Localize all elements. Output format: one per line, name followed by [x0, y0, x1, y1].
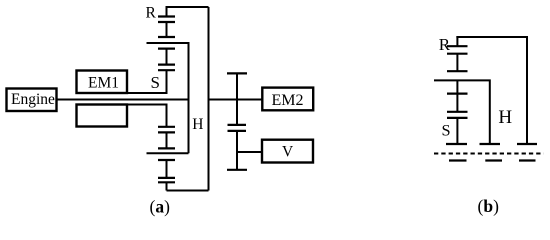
wire damper to lower shaft: [127, 105, 167, 127]
gear bar R mesh bottom (b): [447, 53, 468, 55]
wire EM1 to sun gear S: [127, 92, 168, 94]
ground dashed line (b): [434, 153, 544, 155]
wire S stub to EM1 line: [166, 70, 168, 93]
wire R stub: [166, 6, 168, 17]
gear bar lower mesh top: [158, 126, 175, 128]
gear bar above lower shaft: [158, 147, 175, 149]
damper box: [77, 105, 128, 127]
motor EM1 box: [77, 71, 128, 94]
svg-text:H: H: [498, 107, 512, 128]
gear S ground T-bar (b): [446, 143, 467, 145]
gear rail ground T-bar (b): [517, 143, 537, 145]
gear counter output T-bar: [227, 169, 247, 171]
gear bar R upper: [158, 15, 175, 17]
vehicle V box: [262, 140, 313, 163]
wire lower stub: [166, 132, 168, 148]
wire carrier H lower shaft: [147, 152, 189, 154]
wire carrier H upper shaft: [147, 43, 189, 153]
wire R to mesh stub: [166, 22, 168, 37]
wire S lower stub (b): [456, 118, 458, 144]
wire output stub to bottom: [166, 182, 168, 190]
wire ring gear top: [167, 6, 209, 8]
svg-text:V: V: [282, 144, 294, 161]
gear bar below lower shaft: [158, 159, 175, 161]
svg-text:H: H: [192, 116, 203, 133]
svg-text:(b): (b): [478, 196, 500, 216]
gear bar above S shaft (b): [447, 70, 468, 72]
svg-text:S: S: [442, 121, 451, 140]
svg-text:EM2: EM2: [272, 92, 304, 109]
gear bar sun upper: [158, 47, 175, 49]
ground mark under rail (b): [519, 159, 536, 161]
wire R lower stub (b): [456, 54, 458, 71]
wire S stub (b): [456, 80, 458, 93]
gear bar R lower: [158, 21, 175, 23]
wire R stub (b): [456, 36, 458, 46]
wire ring bottom: [167, 190, 209, 192]
wire carrier H shaft (b): [434, 80, 490, 144]
wire counter to vehicle box: [237, 151, 262, 153]
wire counter output stem: [236, 131, 238, 170]
gear bar counter mesh bottom: [228, 130, 247, 132]
wire sun stub: [166, 49, 168, 65]
svg-text:S: S: [151, 73, 160, 92]
engine box: [7, 89, 57, 112]
gear H ground T-bar (b): [480, 143, 501, 145]
wire ring rail: [208, 7, 210, 191]
gear bar output mesh top: [158, 177, 175, 179]
wire right rail (b): [526, 36, 528, 144]
wire counter input stem: [236, 73, 238, 125]
svg-text:R: R: [439, 35, 451, 54]
svg-text:(a): (a): [150, 197, 171, 217]
gear bar S mesh top (b): [447, 111, 468, 113]
wire top rail (b): [456, 36, 527, 38]
gear bar S upper: [158, 63, 175, 65]
gear bar S top (b): [447, 92, 468, 94]
gear bar mesh top: [158, 36, 175, 38]
gear bar S lower: [158, 69, 175, 71]
svg-text:Engine: Engine: [11, 91, 55, 108]
svg-text:EM1: EM1: [88, 75, 119, 92]
ground mark under S (b): [449, 159, 467, 161]
gear bar lower mesh bottom: [158, 131, 175, 133]
gear counter input T-bar: [227, 72, 247, 74]
gear bar counter mesh top: [228, 124, 247, 126]
svg-text:R: R: [146, 5, 157, 22]
wire engine shaft to carrier H: [57, 99, 189, 101]
gear bar R mesh top (b): [447, 45, 468, 47]
gear bar S mesh bottom (b): [447, 117, 468, 119]
gear bar output mesh bottom: [158, 181, 175, 183]
motor EM2 box: [262, 88, 313, 111]
wire S gear stub (b): [456, 94, 458, 112]
ground mark under H (b): [485, 159, 502, 161]
wire rail to EM2: [209, 99, 263, 101]
wire output gear stub: [166, 160, 168, 178]
